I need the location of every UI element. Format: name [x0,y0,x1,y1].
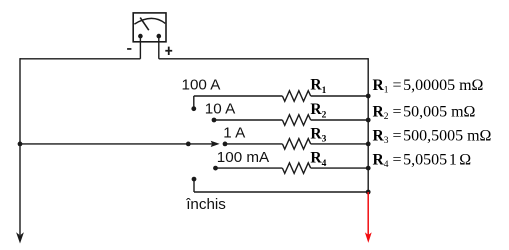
wire: switch wiper [20,143,213,145]
svg-text:1 A: 1 A [223,125,246,142]
node: wiper pivot [186,142,191,147]
resistor R1 [282,91,310,102]
wire: bottom row (inchis) [194,191,368,193]
wire: R4 row right segment [311,167,369,169]
meter plus sign [165,47,172,55]
node: meter terminal - [138,34,143,39]
svg-text:R3: R3 [310,126,326,145]
svg-text:R1: R1 [310,77,326,96]
red arrow: circuit lead (+) [365,192,372,243]
wire: top left horizontal [20,58,140,60]
wire: R2 row left segment [214,119,282,121]
node: R2 / right bus junction [366,118,371,123]
node: R4 / right bus junction [366,166,371,171]
wire: R3 row left segment [225,143,282,145]
wire: left vertical bus [19,58,21,235]
svg-text:100 A: 100 A [182,76,222,93]
resistor R2 [282,115,310,126]
svg-text:R3 = 500,5005 mΩ: R3 = 500,5005 mΩ [373,128,492,146]
black arrow: circuit lead (-) [16,232,24,243]
wire: inchis contact stub [193,179,195,192]
svg-text:100 mA: 100 mA [217,149,270,166]
wire: R4 row left segment [216,167,283,169]
wire: R1 row right segment [311,95,369,97]
svg-text:10 A: 10 A [205,101,236,118]
svg-text:închis: închis [185,196,226,213]
meter minus sign [127,48,131,50]
resistor R3 [282,139,310,150]
wire: R2 row right segment [311,119,369,121]
svg-text:R2 = 50,005 mΩ: R2 = 50,005 mΩ [373,104,476,122]
switch contact: inchis [192,177,197,182]
switch contact: 10 A [212,118,217,123]
meter M1 needle [140,18,149,31]
switch wiper arrowhead [211,141,220,147]
wire: meter minus lead [139,36,141,59]
wire: R1 row left segment [194,95,283,97]
switch contact: 100 A [191,106,196,111]
wire: right vertical bus [367,58,369,192]
svg-text:R1 = 5,00005 mΩ: R1 = 5,00005 mΩ [373,77,484,95]
meter M1 scale arc [134,18,165,24]
node: bottom / right bus junction [366,190,371,195]
resistor R4 [282,163,310,174]
wire: 100 A contact stub [193,96,195,109]
meter M1 box [133,13,166,42]
switch contact: 100 mA [213,166,218,171]
wire: R3 row right segment [311,143,369,145]
switch contact: 1 A [223,142,228,147]
node: R3 / right bus junction [366,142,371,147]
svg-text:R2: R2 [310,101,326,120]
node: meter terminal + [157,34,162,39]
node: R1 / right bus junction [366,94,371,99]
wire: top right horizontal [159,58,368,60]
svg-text:R4 = 5,0505 1 Ω: R4 = 5,0505 1 Ω [373,152,472,170]
node: wiper / left bus junction [18,142,23,147]
wire: meter plus lead [158,36,160,59]
svg-text:R4: R4 [310,150,326,169]
